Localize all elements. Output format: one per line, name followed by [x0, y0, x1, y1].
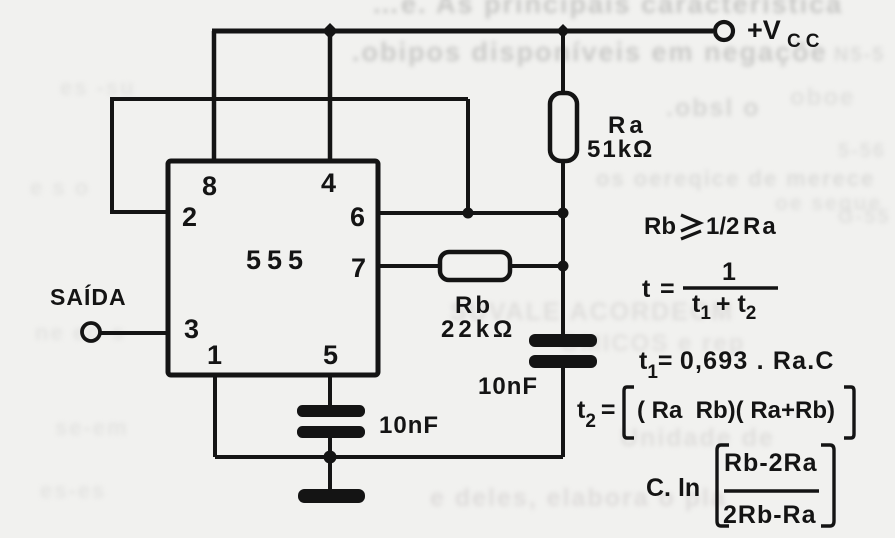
svg-text:( Ra Rb)( Ra+Rb): ( Ra Rb)( Ra+Rb): [637, 397, 835, 424]
svg-text:Rb-2Ra: Rb-2Ra: [724, 449, 818, 477]
svg-text:Ra: Ra: [743, 213, 778, 240]
svg-text:3: 3: [184, 314, 199, 344]
svg-text:2: 2: [182, 202, 197, 232]
svg-text:5: 5: [323, 340, 338, 370]
svg-text:10nF: 10nF: [379, 412, 439, 439]
svg-text:2Rb-Ra: 2Rb-Ra: [723, 501, 817, 529]
svg-text:1: 1: [722, 258, 736, 286]
svg-text:1/2: 1/2: [706, 213, 739, 240]
svg-text:t1= 0,693 . Ra.C: t1= 0,693 . Ra.C: [639, 347, 835, 383]
svg-text:Rb: Rb: [644, 213, 676, 240]
svg-text:8: 8: [202, 171, 217, 201]
svg-text:7: 7: [351, 253, 366, 283]
svg-text:C. ln: C. ln: [646, 474, 700, 502]
svg-text:CC: CC: [787, 31, 824, 52]
svg-text:t2 =: t2 =: [577, 396, 616, 432]
svg-text:51kΩ: 51kΩ: [587, 136, 654, 163]
svg-text:4: 4: [321, 168, 336, 198]
svg-text:t1 + t2: t1 + t2: [692, 290, 756, 324]
svg-text:1: 1: [207, 340, 222, 370]
svg-text:10nF: 10nF: [478, 373, 538, 400]
svg-text:Rb: Rb: [455, 292, 493, 319]
svg-text:Ra: Ra: [608, 112, 647, 139]
svg-text:+V: +V: [747, 15, 781, 45]
svg-text:22kΩ: 22kΩ: [441, 316, 516, 343]
svg-text:=: =: [660, 275, 675, 303]
svg-text:SAÍDA: SAÍDA: [50, 283, 127, 310]
svg-text:6: 6: [350, 202, 365, 232]
svg-text:555: 555: [246, 245, 309, 275]
svg-text:t: t: [642, 275, 651, 303]
